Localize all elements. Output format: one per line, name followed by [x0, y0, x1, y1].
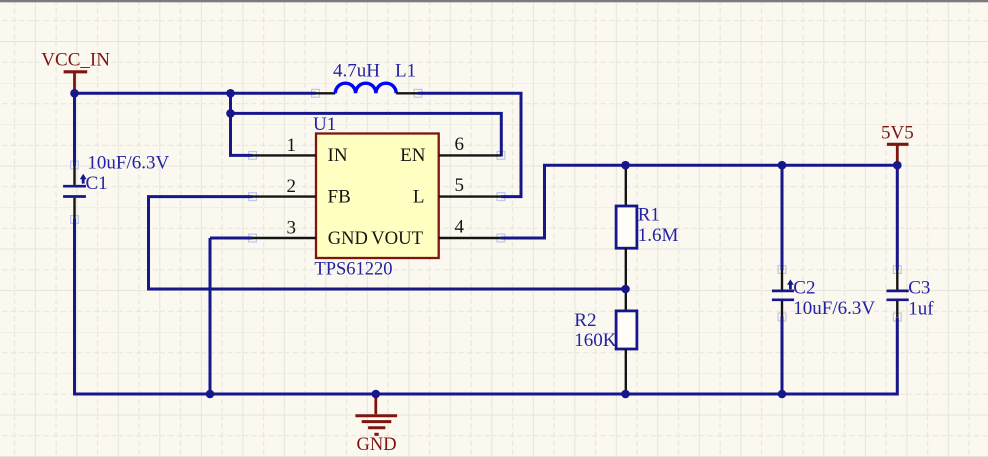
junction top rail [226, 89, 235, 98]
svg-text:VCC_IN: VCC_IN [41, 50, 110, 71]
pin 5 L lead [439, 195, 501, 197]
junction EN branch [226, 109, 235, 118]
svg-text:EN: EN [400, 145, 426, 166]
resistor R2 [625, 289, 627, 311]
pin 4 VOUT lead [439, 237, 501, 239]
svg-text:1: 1 [287, 135, 297, 156]
svg-text:6: 6 [455, 134, 465, 155]
svg-text:GND: GND [357, 435, 397, 455]
svg-text:1.6M: 1.6M [638, 225, 679, 246]
power symbol 5V5 bar [887, 143, 909, 146]
inductor L1 [316, 92, 336, 94]
C1 polarity mark [80, 174, 87, 184]
svg-text:C1: C1 [86, 173, 108, 194]
junction C2 bottom [778, 390, 787, 399]
capacitor C2 [781, 270, 783, 290]
resistor R1 [625, 165, 627, 206]
wire L1 to pin 5 L [418, 93, 521, 196]
junction R1 top [621, 161, 630, 170]
wire VOUT to 5V5 rail [501, 165, 897, 238]
junction VCC_IN [70, 89, 79, 98]
pin 2 FB lead [253, 195, 317, 197]
svg-text:4: 4 [455, 217, 465, 238]
junction ground symbol [372, 390, 381, 399]
svg-text:TPS61220: TPS61220 [314, 260, 392, 280]
svg-text:R2: R2 [574, 310, 596, 331]
op IC U1 TPS61220 body [316, 134, 439, 259]
wire 5V5 rail to C3 [896, 165, 899, 270]
svg-text:160K: 160K [574, 330, 617, 351]
svg-text:4.7uH: 4.7uH [333, 61, 380, 82]
power symbol 5V5 stem [896, 144, 899, 163]
svg-text:5V5: 5V5 [881, 122, 914, 143]
junction 5V5 [893, 161, 902, 170]
power symbol VCC_IN bar [64, 70, 88, 73]
svg-text:IN: IN [328, 145, 348, 166]
wire FB to R1-R2 node [149, 197, 626, 289]
wire VCC_IN down to C1 [73, 93, 76, 165]
junction FB R1-R2 [621, 285, 630, 294]
junction GND wire [206, 390, 215, 399]
svg-text:3: 3 [287, 218, 297, 239]
svg-text:L: L [413, 187, 425, 208]
ground symbol [374, 395, 377, 414]
wire pin 3 GND stub [210, 237, 253, 240]
pin hotspot markers [249, 152, 257, 160]
wire to pin 1 IN [231, 93, 253, 155]
svg-text:GND: GND [328, 229, 368, 249]
svg-text:1uf: 1uf [908, 299, 934, 320]
svg-text:10uF/6.3V: 10uF/6.3V [793, 298, 875, 319]
svg-text:R1: R1 [638, 205, 660, 226]
svg-text:C2: C2 [793, 278, 815, 299]
svg-text:5: 5 [455, 175, 465, 196]
capacitor C1 [73, 165, 75, 185]
pin 1 IN lead [253, 154, 317, 156]
svg-text:2: 2 [287, 176, 297, 197]
wire EN pin 6 [231, 113, 502, 156]
svg-text:U1: U1 [313, 114, 336, 135]
wire bottom ground rail [75, 219, 898, 394]
wire C2 to ground rail [781, 317, 784, 395]
svg-text:C3: C3 [908, 278, 930, 299]
pin 6 EN lead [439, 154, 501, 156]
wire pin 3 GND down [209, 238, 212, 394]
wire VCC_IN top rail to L1 [75, 92, 317, 95]
svg-text:FB: FB [328, 187, 351, 208]
power symbol VCC_IN stem [73, 72, 76, 92]
top border bar [0, 0, 988, 2]
pin 3 GND lead [253, 237, 317, 239]
capacitor C3 [896, 270, 898, 290]
junction R2 bottom [621, 390, 630, 399]
svg-text:L1: L1 [395, 61, 416, 82]
svg-text:10uF/6.3V: 10uF/6.3V [87, 152, 169, 173]
C2 polarity mark [787, 279, 794, 289]
svg-text:VOUT: VOUT [371, 228, 423, 249]
wire 5V5 rail to C2 [781, 165, 784, 270]
junction C2 top [778, 161, 787, 170]
